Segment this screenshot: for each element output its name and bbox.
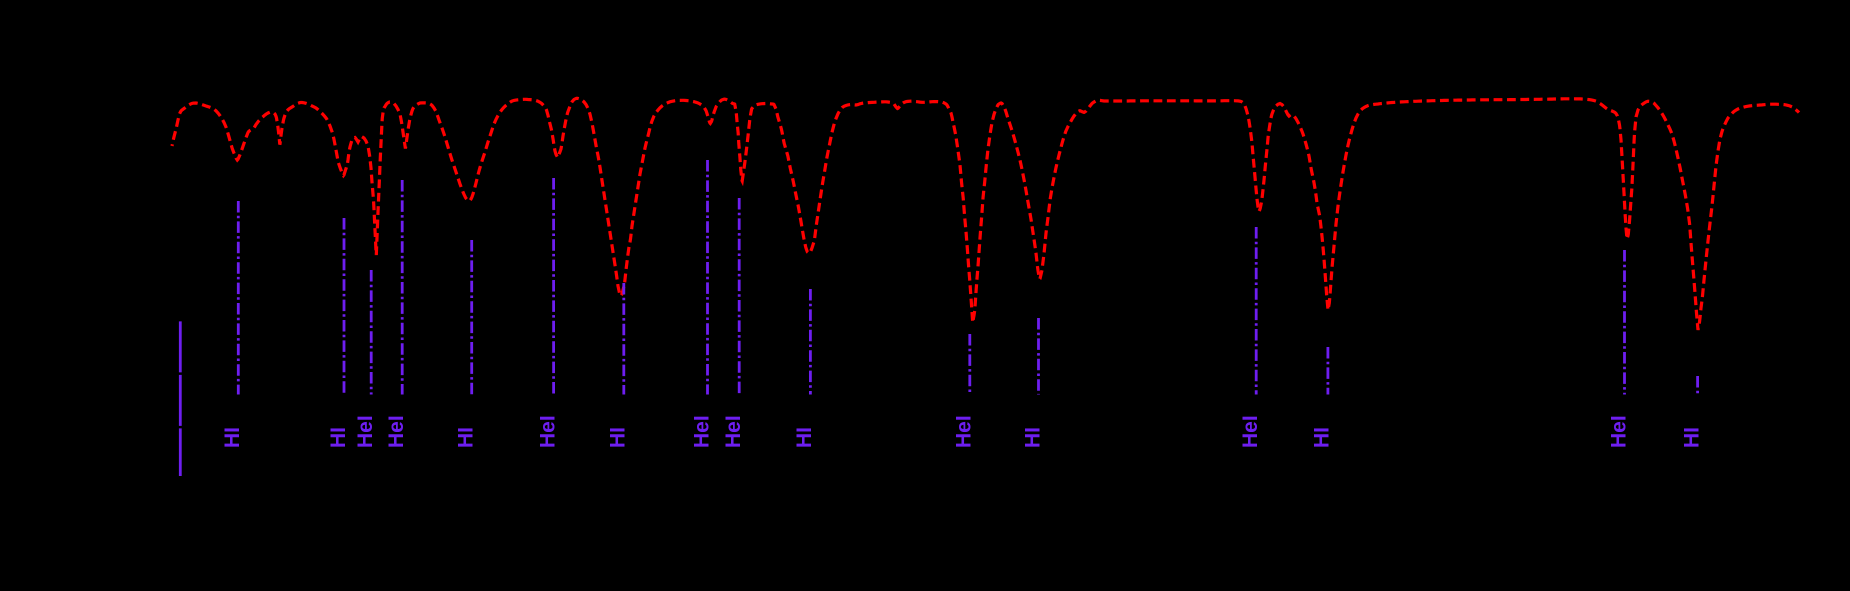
spectral line HI at x=810 (809, 289, 812, 395)
spectral line HeI at x=402 (401, 180, 404, 395)
spectral line HeI at x=371 (370, 270, 373, 395)
spectrum curve (red dashed) (172, 98, 1799, 330)
svg-text:HI: HI (1021, 427, 1044, 448)
svg-text:HI: HI (221, 427, 244, 448)
spectral line HeI at x=554 (552, 178, 555, 395)
svg-text:HI: HI (607, 427, 630, 448)
svg-text:HI: HI (793, 427, 816, 448)
spectral line HI at x=624 (622, 283, 625, 395)
svg-text:HI: HI (1680, 427, 1703, 448)
spectral line HeI at x=1624 (1623, 250, 1626, 395)
svg-text:HeI: HeI (690, 415, 713, 448)
svg-text:HeI: HeI (354, 415, 377, 448)
spectral line HeI at x=739 (738, 198, 741, 395)
spectral line HI at x=1328 (1327, 347, 1330, 395)
spectral line HeI at x=970 (968, 334, 971, 395)
spectral line HeI at x=708 (706, 160, 709, 395)
spectral line HI at x=344 (343, 218, 346, 395)
svg-text:HeI: HeI (385, 415, 408, 448)
svg-text:HeI: HeI (953, 415, 976, 448)
svg-text:HI: HI (327, 427, 350, 448)
spectral line HI at x=1038 (1037, 318, 1040, 395)
svg-text:HI: HI (455, 427, 478, 448)
svg-text:HeI: HeI (722, 415, 745, 448)
spectral line HI at x=238 (237, 201, 240, 395)
marker line (unlabeled) at x=180 (179, 321, 182, 476)
svg-text:HeI: HeI (1607, 415, 1630, 448)
svg-text:HeI: HeI (1239, 415, 1262, 448)
spectral line HI at x=472 (470, 240, 473, 395)
spectral line HeI at x=1256 (1255, 227, 1258, 395)
svg-text:HI: HI (1311, 427, 1334, 448)
spectral line HI at x=1698 (1696, 376, 1699, 395)
svg-text:HeI: HeI (536, 415, 559, 448)
